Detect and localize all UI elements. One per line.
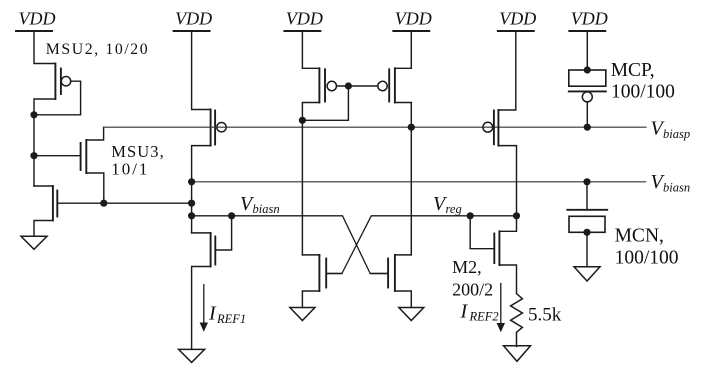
- VDD rail 1 label: [19, 9, 56, 29]
- svg-text:VDD: VDD: [19, 9, 56, 29]
- node Vbiasn segment start: [188, 212, 195, 219]
- wire M2 gate lead: [470, 216, 494, 249]
- label Vreg: [433, 193, 462, 216]
- svg-text:REF2: REF2: [469, 310, 499, 324]
- transistor PMOS3: [319, 68, 336, 102]
- label Vbiasp: [651, 118, 691, 142]
- wire tie down to PMOS3 drain: [302, 86, 348, 120]
- wire VDD6 to MCP: [586, 31, 588, 70]
- svg-text:biasn: biasn: [253, 202, 280, 216]
- label Vbiasn left: [240, 193, 280, 216]
- node PMOS3 drain junction: [299, 117, 306, 124]
- svg-text:M2,: M2,: [452, 257, 482, 277]
- wire MSU3 drain to Vbiasp line: [86, 127, 103, 140]
- capacitor MCP (PMOS cap): [569, 70, 606, 127]
- node gate tie junction: [345, 82, 352, 89]
- svg-text:100/100: 100/100: [611, 82, 675, 103]
- wire Vreg segment to left NMOS gate: [328, 216, 517, 274]
- wire M1 gate line to node: [57, 202, 191, 204]
- transistor NMOS cross left: [302, 255, 342, 291]
- node IREF1 gate tap: [228, 212, 235, 219]
- svg-text:VDD: VDD: [175, 9, 212, 29]
- VDD rail 5 bar: [498, 30, 534, 32]
- svg-text:MSU3,: MSU3,: [111, 142, 165, 161]
- wire VDD1 to MSU2 source: [34, 31, 55, 64]
- node MCP top: [584, 66, 591, 73]
- ground 1: [21, 236, 47, 249]
- resistor R1 5.5k: [511, 294, 523, 347]
- transistor M2 (NMOS): [494, 231, 499, 265]
- node MSU3 gate tap: [30, 152, 37, 159]
- wire rail to M2 drain: [499, 216, 516, 232]
- label MCP: [611, 60, 675, 103]
- wire MSU2 gate feedback loop: [34, 81, 81, 115]
- ground 3: [290, 308, 315, 321]
- wire PMOS2 drain rail down: [192, 146, 211, 233]
- node rail5 Vreg junction: [513, 212, 520, 219]
- svg-text:VDD: VDD: [395, 9, 432, 29]
- ground 4: [399, 308, 424, 321]
- wire VDD2 to PMOS2 source: [192, 31, 211, 110]
- wire MSU3 source down: [86, 173, 104, 203]
- svg-text:VDD: VDD: [571, 9, 608, 29]
- wire IREF1 source to ground: [192, 267, 211, 350]
- node MCP on Vbiasp: [584, 124, 591, 131]
- label Vbiasn right: [651, 171, 691, 195]
- VDD rail 2 label: [175, 9, 212, 29]
- VDD rail 6 label: [571, 9, 608, 29]
- ground 2: [179, 349, 205, 362]
- node MCN bottom: [583, 229, 590, 236]
- wire VDD3 to PMOS3 source: [302, 31, 319, 68]
- node MSU3 source junction: [100, 200, 107, 207]
- svg-text:5.5k: 5.5k: [528, 304, 562, 325]
- svg-text:100/100: 100/100: [615, 247, 679, 268]
- svg-text:REF1: REF1: [216, 312, 246, 326]
- wire PMOS4 drain rail down: [395, 103, 411, 255]
- label 5.5k: [528, 304, 562, 325]
- wire IREF1 gate lead: [215, 216, 231, 250]
- wire PMOS3 drain rail down: [302, 103, 319, 255]
- wire gate tie line: [337, 85, 378, 87]
- wire VDD4 to PMOS4 source: [395, 31, 411, 68]
- VDD rail 4 bar: [393, 30, 429, 32]
- wire right cross source to ground: [395, 291, 411, 308]
- wire MSU2 drain to node: [34, 99, 55, 186]
- svg-text:reg: reg: [446, 202, 462, 216]
- node MSU2 drain junction: [30, 111, 37, 118]
- capacitor MCN (NMOS cap): [567, 182, 607, 267]
- svg-text:10/1: 10/1: [111, 160, 149, 179]
- wire Vbiasp line: [104, 126, 646, 128]
- transistor NMOS cross right: [370, 255, 411, 291]
- VDD rail 3 label: [286, 9, 323, 29]
- wire VDD5 to PMOS5 source: [498, 31, 515, 110]
- svg-text:biasn: biasn: [663, 181, 690, 195]
- VDD rail 4 label: [395, 9, 432, 29]
- label IREF1: [208, 303, 246, 326]
- svg-text:200/2: 200/2: [452, 280, 493, 300]
- svg-text:MCN,: MCN,: [615, 226, 664, 247]
- current arrow IREF2: [497, 284, 505, 333]
- svg-text:I: I: [460, 301, 469, 323]
- node gate line end: [188, 200, 195, 207]
- VDD rail 1 bar: [16, 30, 52, 32]
- label IREF2: [460, 301, 499, 324]
- VDD rail 6 bar: [569, 30, 605, 32]
- node M2 gate tap: [467, 212, 474, 219]
- label MSU3: [111, 142, 165, 179]
- VDD rail 2 bar: [174, 30, 210, 32]
- svg-text:MCP,: MCP,: [611, 60, 655, 81]
- ground 5: [504, 346, 531, 362]
- node Vbiasn line start: [188, 178, 195, 185]
- transistor MSU3 (NMOS): [81, 140, 87, 173]
- wire Vbiasn segment to right NMOS gate: [192, 216, 388, 274]
- transistor PMOS2: [211, 110, 227, 146]
- svg-text:VDD: VDD: [499, 9, 536, 29]
- label MCN: [615, 226, 679, 269]
- VDD rail 3 bar: [284, 30, 320, 32]
- VDD rail 5 label: [499, 9, 536, 29]
- node PMOS4 drain on Vbiasp: [408, 124, 415, 131]
- transistor PMOS5: [483, 110, 499, 146]
- transistor M IREF1 (NMOS): [192, 233, 216, 267]
- current arrow IREF1: [200, 285, 208, 332]
- svg-text:I: I: [208, 303, 217, 325]
- wire PMOS5 drain rail down: [498, 146, 516, 216]
- svg-text:VDD: VDD: [286, 9, 323, 29]
- node MCN on Vbiasn: [583, 178, 590, 185]
- label M2: [452, 257, 493, 300]
- svg-text:biasp: biasp: [663, 127, 690, 141]
- ground 6: [574, 267, 600, 281]
- wire left cross source to ground: [302, 291, 319, 308]
- transistor PMOS4: [378, 68, 395, 102]
- wire M1 source to ground: [34, 221, 53, 237]
- svg-text:MSU2, 10/20: MSU2, 10/20: [46, 41, 150, 58]
- label MSU2 value: [46, 41, 150, 58]
- transistor M1 lower-left (NMOS): [34, 186, 57, 221]
- wire M2 source down: [499, 265, 516, 294]
- wire Vbiasn line: [192, 181, 646, 183]
- wire MSU3 gate lead: [34, 155, 81, 157]
- transistor MSU2 (PMOS): [55, 64, 70, 100]
